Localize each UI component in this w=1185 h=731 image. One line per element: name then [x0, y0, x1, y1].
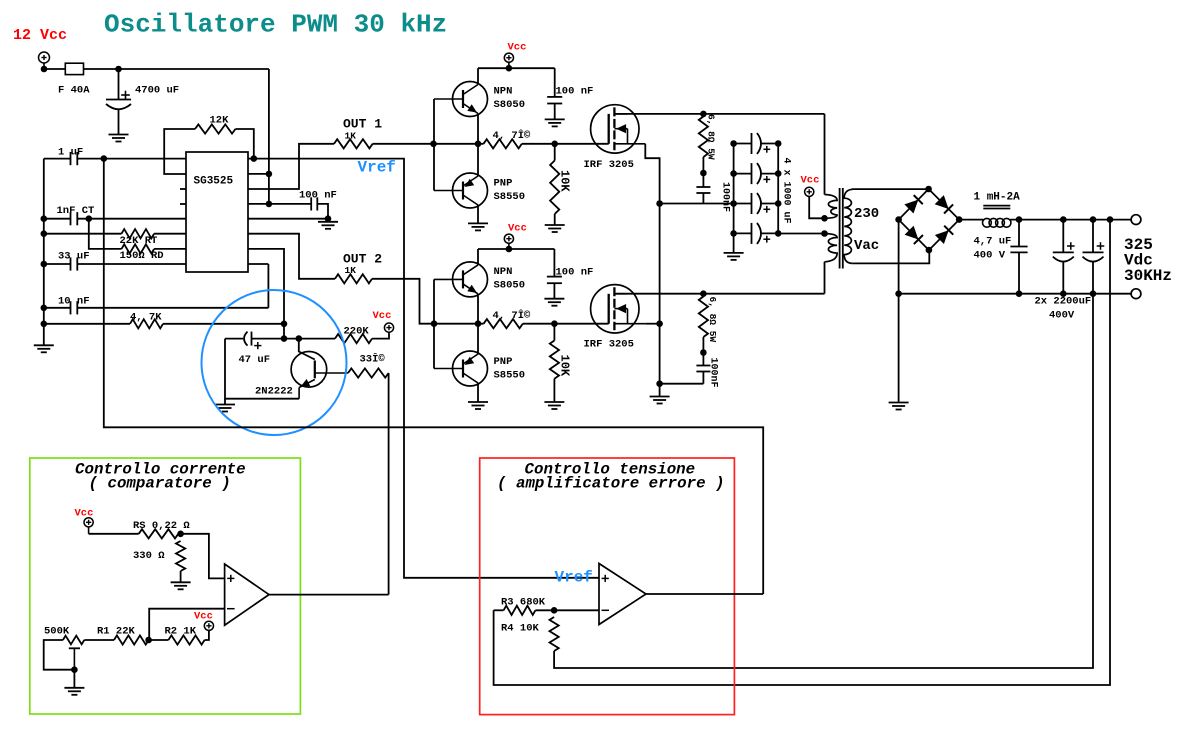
svg-text:2N2222: 2N2222 — [255, 386, 293, 398]
wire NPN1 emitter — [477, 114, 479, 144]
node snubber2 RC — [700, 349, 707, 356]
terminal plus output — [1131, 215, 1141, 225]
resistor 4,7 Ohm driver2 — [484, 319, 523, 328]
base vertical driver2 — [433, 279, 435, 368]
svg-text:33 uF: 33 uF — [58, 251, 90, 263]
wire OUT2 pin — [248, 234, 335, 279]
IC U1 SG3525 — [186, 152, 248, 272]
svg-text:SG3525: SG3525 — [194, 176, 234, 188]
wire Vref pin to error amp — [248, 159, 599, 578]
ground 47uF — [224, 399, 226, 405]
svg-text:30KHz: 30KHz — [1124, 267, 1172, 285]
svg-text:RS 0,22 Ω: RS 0,22 Ω — [133, 520, 190, 532]
wire Vcc to RS — [89, 533, 139, 535]
wire bridge left to ground rail — [898, 220, 900, 403]
svg-text:Vcc: Vcc — [508, 42, 527, 54]
svg-text:Vref: Vref — [358, 159, 396, 177]
node 4700uF tap — [115, 66, 122, 73]
svg-text:12 Vcc: 12 Vcc — [13, 27, 67, 44]
node bridge left — [895, 216, 902, 223]
svg-text:OUT 1: OUT 1 — [343, 117, 382, 132]
node bank L2 — [730, 170, 737, 177]
wire RS to comparator plus — [181, 534, 225, 579]
resistor 4,7 Ohm driver1 — [484, 139, 522, 148]
transformer secondary winding — [853, 188, 929, 190]
wire PNP1 emitter — [477, 144, 479, 177]
resistor 6,8 Ohm 5W lower — [699, 297, 708, 338]
wire inductor to plus terminal — [1010, 219, 1131, 221]
ground chip — [318, 221, 338, 223]
capacitor 1000uF #3 — [734, 203, 752, 205]
svg-text:47 uF: 47 uF — [239, 354, 271, 366]
capacitor 100nF snubber2 — [702, 353, 704, 366]
transistor Q1 2N2222 — [291, 352, 327, 388]
svg-text:4, 7Î©: 4, 7Î© — [493, 128, 532, 142]
node 4.7uF top — [1016, 216, 1023, 223]
node 12K to Vref line — [251, 155, 258, 162]
svg-text:1 mH-2A: 1 mH-2A — [974, 192, 1021, 204]
transistor NPN S8050 driver2 — [453, 262, 488, 297]
svg-text:Vcc: Vcc — [801, 175, 820, 187]
cap bank right rail — [777, 144, 779, 234]
Vcc rail driver1 — [478, 67, 555, 69]
node bank R2 — [775, 170, 782, 177]
node bank R1 — [775, 140, 782, 147]
wire comparator output to base resistor — [388, 373, 390, 595]
wire PNP1 collector to ground — [477, 205, 479, 224]
wire NPN2 collector — [477, 249, 479, 265]
bridge edge T-R — [929, 189, 960, 220]
MOSFET IRF 3205 upper — [591, 105, 639, 153]
wire CT jog to RD — [89, 219, 122, 249]
fuse F 40A — [65, 63, 83, 74]
wire fuse to Vcc rail corner — [84, 68, 269, 70]
svg-text:PNP: PNP — [494, 356, 513, 368]
svg-text:100 nF: 100 nF — [556, 86, 594, 98]
Vcc symbol driver1 — [504, 53, 513, 62]
svg-text:R4 10K: R4 10K — [501, 623, 540, 635]
capacitor 33 uF — [44, 263, 71, 265]
capacitor 47 uF electrolytic — [225, 338, 243, 340]
capacitor 100 nF chip — [248, 203, 311, 205]
resistor 6,8 Ohm 5W upper — [699, 117, 708, 158]
svg-text:PNP: PNP — [494, 178, 513, 190]
node bank R4 — [775, 230, 782, 237]
svg-text:S8050: S8050 — [494, 99, 526, 111]
ground 100nF driver2 — [544, 298, 564, 300]
node 12V input — [41, 66, 48, 73]
svg-text:1K: 1K — [345, 131, 357, 142]
ground PNP1 — [468, 222, 488, 224]
Vcc symbol R2 — [204, 621, 213, 630]
wire source1 staircase — [645, 144, 659, 397]
node bridge bottom — [926, 247, 933, 254]
transformer primary upper winding — [824, 114, 826, 195]
wire bridge plus to inductor — [959, 219, 983, 221]
node snubber1 RC — [700, 170, 707, 177]
svg-text:1 uF: 1 uF — [58, 147, 83, 159]
Vcc supply symbol top-left — [39, 52, 50, 63]
resistor 330 Ohm — [176, 541, 185, 571]
node cap C1 bottom — [1060, 290, 1067, 297]
node 500K wiper — [71, 666, 78, 673]
wire PNP2 emitter — [477, 324, 479, 355]
resistor 12K feedback — [164, 129, 195, 174]
capacitor 2200uF #1 — [1062, 220, 1064, 253]
node Vcc rail2 — [506, 246, 513, 253]
Vcc symbol center tap — [805, 187, 814, 196]
wire +325V feedback down — [494, 220, 1110, 685]
MOSFET IRF 3205 lower — [591, 285, 639, 333]
svg-text:IRF 3205: IRF 3205 — [584, 159, 634, 171]
svg-text:4 x 1000 uF: 4 x 1000 uF — [781, 158, 792, 224]
node R3 R4 junction — [551, 607, 558, 614]
wire NPN2 emitter — [477, 294, 479, 324]
wire drain2 to transformer — [614, 293, 824, 295]
svg-text:100 nF: 100 nF — [556, 267, 594, 279]
capacitor 10 nF — [44, 307, 71, 309]
svg-text:S8050: S8050 — [494, 280, 526, 292]
node center tap lower — [821, 230, 828, 237]
svg-text:10K: 10K — [558, 170, 572, 192]
ground below 4700uF — [109, 134, 129, 136]
ground left rail — [34, 344, 54, 346]
ground PNP2 — [468, 401, 488, 403]
svg-text:6, 8Ω 5W: 6, 8Ω 5W — [707, 297, 718, 343]
svg-text:10 nF: 10 nF — [58, 295, 90, 307]
node 4.7uF bottom — [1016, 290, 1023, 297]
op-amp comparator — [225, 564, 269, 625]
svg-text:4,7 uF: 4,7 uF — [974, 236, 1012, 248]
node bridge right — [956, 216, 963, 223]
resistor 22K RT — [44, 233, 122, 235]
diode D3 — [905, 226, 919, 240]
transformer primary lower winding — [825, 234, 838, 262]
pin stub left upper — [180, 188, 186, 190]
wire PNP2 collector to ground — [477, 383, 479, 402]
capacitor 1000uF #2 — [734, 173, 752, 175]
svg-text:6, 8Ω 5W: 6, 8Ω 5W — [706, 114, 717, 160]
svg-text:220K: 220K — [344, 326, 370, 338]
capacitor 2200uF #2 — [1092, 220, 1094, 253]
node rail 4.7K — [41, 321, 48, 328]
svg-text:100nF: 100nF — [708, 358, 719, 388]
diode D1 — [904, 200, 918, 214]
wire DC minus rail — [899, 293, 1132, 295]
svg-text:230: 230 — [854, 206, 879, 222]
node DC minus — [895, 290, 902, 297]
resistor 1K OUT1 — [334, 139, 373, 148]
svg-text:4700 uF: 4700 uF — [135, 85, 179, 97]
wire snubber2 bottom — [660, 383, 704, 385]
wire Vcc to center tap — [809, 196, 824, 218]
diode D2 — [935, 195, 949, 209]
node source2 tie — [656, 320, 663, 327]
node 1uF to feedback — [101, 155, 108, 162]
node snubber2 bottom tie — [656, 380, 663, 387]
bridge edge B-R — [929, 220, 959, 251]
capacitor 1000uF #4 — [734, 232, 752, 234]
node cap C2 bottom / 0V feedback — [1090, 290, 1097, 297]
node Vcc rail1 — [506, 65, 513, 72]
svg-text:33Î©: 33Î© — [360, 352, 386, 366]
base vertical driver1 — [433, 99, 435, 191]
node Vcc pin — [266, 171, 273, 178]
node driver2 output — [475, 320, 482, 327]
svg-text:S8550: S8550 — [494, 370, 526, 382]
svg-text:100 nF: 100 nF — [299, 189, 337, 201]
node OUT1 to bases — [430, 141, 437, 148]
svg-text:Vref: Vref — [555, 569, 593, 587]
ground cap bank — [724, 252, 744, 254]
left ground rail — [43, 159, 45, 346]
wire 47uF negative to ground run — [225, 339, 299, 399]
svg-text:( amplificatore errore ): ( amplificatore errore ) — [497, 475, 725, 493]
wire soft-start pin to 47uF node — [248, 249, 284, 339]
node snubber2 top — [700, 290, 707, 297]
wire error amp output — [646, 593, 763, 595]
resistor 1K OUT2 — [335, 274, 372, 283]
ground 100nF driver1 — [545, 118, 565, 120]
Vcc symbol driver2 — [504, 234, 513, 243]
resistor 150 Ohm RD — [122, 244, 155, 253]
wire 12V to fuse — [44, 68, 66, 70]
svg-text:Vcc: Vcc — [508, 223, 527, 235]
highlight blue circle — [202, 290, 347, 435]
wire source2 — [645, 323, 659, 325]
capacitor 1000uF #1 — [734, 143, 752, 145]
node rail 22K — [41, 230, 48, 237]
wire Vcc pin — [248, 173, 269, 175]
resistor RS 0,22 Ohm — [139, 529, 179, 538]
svg-text:Oscillatore PWM 30 kHz: Oscillatore PWM 30 kHz — [104, 10, 447, 40]
svg-text:NPN: NPN — [494, 266, 513, 278]
svg-text:330 Ω: 330 Ω — [133, 550, 165, 562]
node bank L3 — [730, 200, 737, 207]
resistor 4,7K — [44, 323, 130, 325]
svg-text:4, 7Î©: 4, 7Î© — [493, 308, 532, 322]
svg-text:150Ω RD: 150Ω RD — [120, 250, 164, 262]
node +325V feedback — [1107, 216, 1114, 223]
wire 0V feedback down — [554, 262, 1093, 668]
resistor 10K driver2 — [553, 324, 555, 341]
node bank R3 — [775, 200, 782, 207]
node chip ground — [325, 215, 332, 222]
transistor PNP S8550 driver2 — [453, 351, 488, 386]
transistor PNP S8550 driver1 — [453, 173, 488, 208]
wire cap bank to center tap lower — [778, 233, 824, 235]
node Vc pin — [266, 201, 273, 208]
capacitor 1nF CT — [44, 218, 71, 220]
wire source rail to cap bank — [660, 203, 734, 205]
svg-text:400V: 400V — [1049, 310, 1075, 322]
node cap C1 top — [1060, 216, 1067, 223]
cap bank left rail — [733, 144, 735, 253]
svg-text:100nF: 100nF — [720, 182, 731, 212]
node gate2 — [551, 320, 558, 327]
svg-text:2x 2200uF: 2x 2200uF — [1035, 296, 1092, 308]
svg-text:Vac: Vac — [854, 238, 879, 254]
capacitor 100nF snubber1 — [702, 173, 704, 187]
svg-text:NPN: NPN — [494, 86, 513, 98]
bridge edge L-B — [899, 220, 929, 251]
wire gnd pin — [248, 218, 328, 220]
svg-text:12K: 12K — [210, 115, 230, 127]
green box comparator section — [30, 458, 301, 714]
Vcc symbol comparator — [84, 518, 93, 527]
svg-text:1K: 1K — [345, 265, 357, 276]
wire error amp output to chip inv input — [104, 159, 763, 594]
node R1 R2 junction — [145, 637, 152, 644]
transistor NPN S8050 driver1 — [453, 82, 488, 117]
wire comparator output — [269, 594, 389, 596]
wire node1 — [434, 143, 484, 145]
node gate1 — [551, 141, 558, 148]
capacitor 100 nF driver1 — [554, 68, 556, 97]
svg-text:1nF CT: 1nF CT — [57, 205, 95, 217]
node 2N2222 collector — [296, 335, 303, 342]
svg-text:IRF 3205: IRF 3205 — [584, 339, 634, 351]
diode D4 — [935, 230, 949, 244]
resistor 10K driver1 — [554, 144, 556, 161]
node bank L4 — [730, 230, 737, 237]
wire drain1 to transformer — [614, 113, 824, 115]
svg-text:( comparatore ): ( comparatore ) — [89, 475, 231, 493]
Vcc rail driver2 — [478, 248, 554, 250]
bridge edge L-T — [899, 189, 929, 220]
node snubber1 top — [700, 111, 707, 118]
resistor 33 Ohm base — [348, 368, 389, 377]
svg-text:4, 7K: 4, 7K — [130, 311, 162, 323]
node center tap upper — [821, 215, 828, 222]
wire discharge pin to 10nF — [248, 263, 268, 265]
wire comparator minus input — [149, 609, 224, 640]
svg-text:S8550: S8550 — [494, 191, 526, 203]
svg-text:Vcc: Vcc — [373, 310, 392, 322]
capacitor 100 nF driver2 — [553, 249, 555, 277]
node OUT2 to bases — [431, 320, 438, 327]
transformer core — [839, 188, 841, 269]
node cap C2 top — [1090, 216, 1097, 223]
node CT — [86, 215, 93, 222]
capacitor 4700 uF electrolytic — [118, 69, 120, 100]
ground MOSFET vertical — [650, 396, 670, 398]
wire 10nF up to chip pin — [267, 264, 269, 308]
terminal minus output — [1131, 289, 1141, 299]
red box error amplifier section — [480, 458, 735, 715]
Vcc symbol 220K — [384, 323, 393, 332]
node bank L1 — [730, 140, 737, 147]
wire node2 — [434, 323, 484, 325]
node rail 10nF — [41, 305, 48, 312]
node rail 1nF — [41, 215, 48, 222]
svg-text:10K: 10K — [558, 355, 572, 377]
op-amp error amplifier — [599, 564, 646, 625]
svg-text:F 40A: F 40A — [58, 85, 90, 97]
wire NPN1 collector — [477, 68, 479, 84]
ground 330 Ohm — [171, 581, 191, 583]
capacitor 4,7 uF 400V — [1018, 220, 1020, 247]
Vcc vertical feed to SG3525 — [268, 69, 270, 204]
node source1 to cap bank — [656, 200, 663, 207]
ground 10K driver2 — [544, 401, 564, 403]
node driver1 output — [475, 141, 482, 148]
node rail 33uF — [41, 261, 48, 268]
ground bridge minus — [889, 402, 909, 404]
pin stub left lower — [180, 203, 186, 205]
node 4.7K to chip — [281, 321, 288, 328]
svg-text:R2 1K: R2 1K — [165, 626, 197, 638]
node bridge top — [925, 186, 932, 193]
ground 500K — [73, 670, 75, 688]
svg-text:400 V: 400 V — [974, 250, 1006, 262]
wire OUT1 pin — [248, 144, 334, 189]
wire 47uF node to 220K — [284, 338, 335, 340]
resistor 220K — [335, 334, 372, 343]
node 47uF top — [281, 335, 288, 342]
inductor 1 mH-2A — [983, 205, 1010, 207]
node RS sense — [177, 531, 184, 538]
ground 10K driver1 — [545, 224, 565, 226]
capacitor 1 uF — [44, 158, 71, 160]
